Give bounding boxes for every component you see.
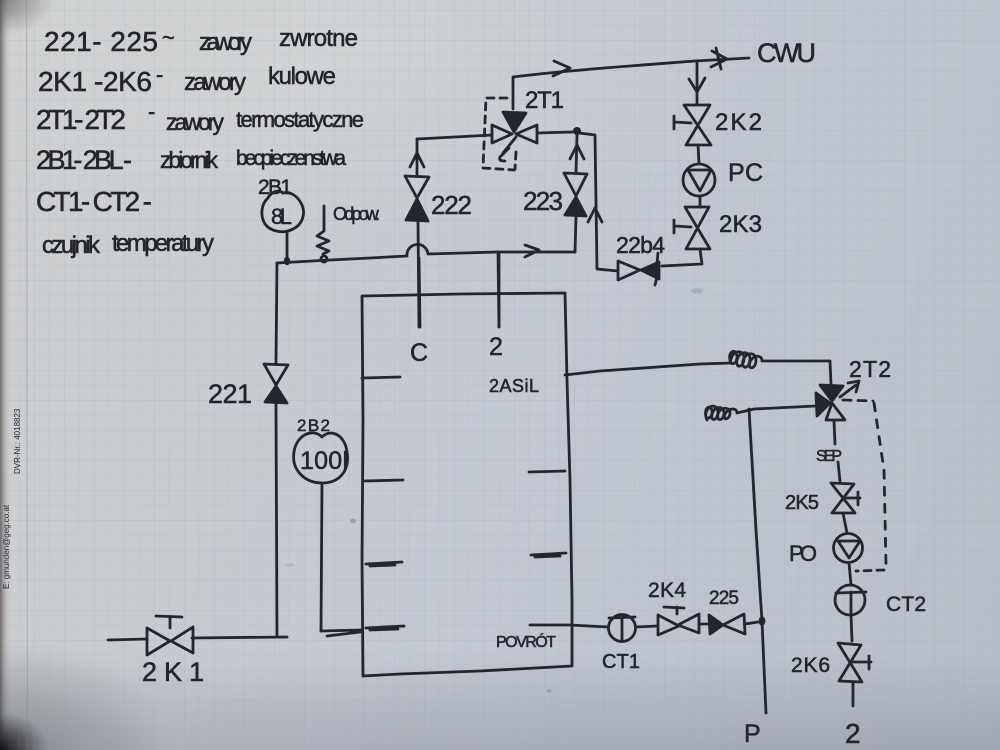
svg-text:zawory: zawory xyxy=(199,29,252,56)
svg-text:2K6: 2K6 xyxy=(791,654,830,677)
svg-text:czujnik: czujnik xyxy=(42,232,101,259)
svg-text:POVRÓT: POVRÓT xyxy=(496,632,556,651)
svg-text:221- 225: 221- 225 xyxy=(44,26,158,57)
svg-text:221: 221 xyxy=(208,379,252,409)
wire ZZ2 down through hop to boiler C input xyxy=(418,221,419,327)
arrow right on main wire xyxy=(525,245,539,257)
svg-text:2: 2 xyxy=(845,718,861,749)
node: junction dot P/ZZ5 xyxy=(759,616,766,625)
svg-text:termostatyczne: termostatyczne xyxy=(236,107,364,132)
wire ZB2 to boiler xyxy=(321,630,362,636)
arrow down to 2K2 xyxy=(689,78,705,92)
svg-text:CT2: CT2 xyxy=(886,593,926,616)
wire ZT1 left port to ZZ2 xyxy=(417,135,492,139)
boiler left ticks xyxy=(362,377,400,378)
check valve ZZ2 xyxy=(405,176,429,198)
wire PC to 2K3 xyxy=(699,196,702,207)
3-way thermostatic valve ZT2 xyxy=(820,385,843,401)
svg-text:2K1: 2K1 xyxy=(142,657,204,687)
ball valve 2K3 xyxy=(685,207,710,249)
dashed wire from ZT2 to PO xyxy=(843,400,873,401)
svg-text:SEP: SEP xyxy=(816,448,842,465)
boiler Z inlet pipe xyxy=(498,253,501,327)
wire P line scribble into ZT2 left xyxy=(705,406,816,420)
node: junction blob under ZB1 xyxy=(284,257,290,265)
svg-text:223: 223 xyxy=(523,186,563,216)
wire P vertical xyxy=(749,409,766,713)
svg-text:2K4: 2K4 xyxy=(648,579,686,602)
svg-text:becpieczenstwa: becpieczenstwa xyxy=(236,147,346,170)
sidebar stamp text xyxy=(2,408,22,589)
svg-text:2: 2 xyxy=(489,333,503,361)
svg-text:2B1: 2B1 xyxy=(258,176,292,199)
scribble on ZASIL wire xyxy=(730,351,831,384)
svg-text:zwrotne: zwrotne xyxy=(279,25,358,52)
safety tank ZB1 xyxy=(262,191,304,232)
ball valve ZK1 xyxy=(147,627,193,655)
dashed box around ZT1 xyxy=(483,98,516,170)
check valve ZZ1 xyxy=(264,364,288,385)
3-way thermostatic valve ZT1 xyxy=(516,125,537,143)
svg-text:PC: PC xyxy=(728,159,763,187)
safety tank ZB2 xyxy=(294,433,348,483)
arrow on CWU line (left) xyxy=(553,61,570,76)
wire 2K3 down and left to ZZ4 xyxy=(662,249,702,266)
sensor CT1 xyxy=(609,615,636,642)
svg-text:-: - xyxy=(148,99,155,124)
svg-text:2ASiL: 2ASiL xyxy=(489,376,539,396)
wire branch down to boiler Z input xyxy=(498,252,499,327)
arrow on CWU line (right, at end) xyxy=(711,48,727,69)
svg-text:222: 222 xyxy=(431,190,472,220)
svg-text:2B2: 2B2 xyxy=(297,416,330,435)
wire up ZZ3 branch xyxy=(575,217,576,252)
relief spring Odpow. xyxy=(317,206,329,254)
ball valve 2K6 xyxy=(838,643,862,682)
svg-text:temperatury: temperatury xyxy=(112,230,214,257)
svg-text:2K5: 2K5 xyxy=(785,492,819,514)
arrow up above ZZ3 xyxy=(570,145,584,159)
wire bottom left to ZK1 xyxy=(108,637,287,640)
pump PC xyxy=(683,164,715,196)
sensor CT2 xyxy=(835,585,865,615)
wire POWROT out to CT1 xyxy=(530,625,608,627)
wire dot to ZT1 right port xyxy=(537,132,573,133)
svg-text:CWU: CWU xyxy=(757,38,816,68)
svg-text:8L: 8L xyxy=(271,204,292,229)
svg-text:zbiornik: zbiornik xyxy=(160,147,219,173)
svg-text:2K1 -2K6: 2K1 -2K6 xyxy=(38,66,152,97)
svg-text:2T2: 2T2 xyxy=(849,356,891,382)
svg-text:zawory: zawory xyxy=(166,109,225,135)
wire: ZT1 riser to CWU top line xyxy=(513,58,749,109)
wire left corner down to ZZ1 xyxy=(276,263,277,363)
main horizontal supply wire with hop xyxy=(277,244,575,263)
svg-text:E: gmunden@geg.co.at: E: gmunden@geg.co.at xyxy=(2,504,11,589)
ball valve 2K5 xyxy=(831,483,855,513)
svg-text:Odpow.: Odpow. xyxy=(333,204,380,224)
svg-text:-: - xyxy=(156,62,163,87)
svg-text:225: 225 xyxy=(709,588,739,609)
svg-text:DVR-Nr.: 4018823: DVR-Nr.: 4018823 xyxy=(13,408,22,474)
check valve ZZ5 xyxy=(709,615,723,634)
boiler C inlet pipe xyxy=(419,258,420,327)
wire ZT2 down to SEP and 2K5 xyxy=(834,421,840,481)
pump PO xyxy=(834,534,863,563)
ball valve 2K4 xyxy=(658,614,699,635)
wire down to ZZ2 with up arrow xyxy=(416,139,419,175)
svg-text:CT1- CT2 -: CT1- CT2 - xyxy=(36,186,152,217)
svg-text:PO: PO xyxy=(789,541,817,566)
wire 2K2 to PC xyxy=(698,145,699,163)
wire ZZ4 left, up to junction dot xyxy=(579,133,618,271)
svg-text:2B1- 2BL -: 2B1- 2BL - xyxy=(36,145,132,175)
svg-text:2K2: 2K2 xyxy=(715,109,762,136)
svg-text:kulowe: kulowe xyxy=(268,63,336,90)
svg-text:2T1- 2T2: 2T1- 2T2 xyxy=(36,104,126,135)
svg-text:2T1: 2T1 xyxy=(525,87,564,114)
ZT1 actuator arrow (down-left) xyxy=(500,137,516,161)
svg-text:zawory: zawory xyxy=(184,69,246,96)
boiler tank outline xyxy=(362,293,572,676)
svg-text:2K3: 2K3 xyxy=(719,211,762,238)
node: junction dot at ZT1 right xyxy=(573,127,581,135)
ball valve 2K2 xyxy=(684,105,711,145)
wire ZASIL out to ZT2 xyxy=(565,363,731,375)
svg-text:100l: 100l xyxy=(300,447,348,475)
svg-text:CT1: CT1 xyxy=(602,651,640,673)
boiler right ticks xyxy=(529,471,565,472)
arrow up on ZZ4 riser xyxy=(588,208,602,222)
wire: branch down to 2K2 xyxy=(696,61,699,103)
svg-text:~: ~ xyxy=(162,25,175,50)
check valve ZZ3 xyxy=(564,173,587,196)
svg-text:22b4: 22b4 xyxy=(616,232,665,258)
ZT2 actuator arrow up-right xyxy=(840,381,859,397)
svg-text:P: P xyxy=(744,720,761,748)
svg-text:C: C xyxy=(410,339,428,367)
check valve ZZ4 xyxy=(618,261,640,280)
